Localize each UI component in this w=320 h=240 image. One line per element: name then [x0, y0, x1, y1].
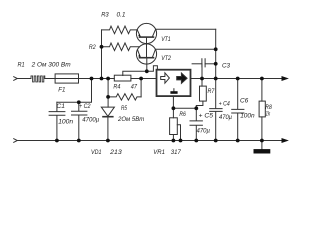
- transistor VT2: [136, 44, 156, 64]
- node dot base drive: [145, 69, 149, 73]
- node dot rail C6: [236, 139, 240, 143]
- node dot rail C1: [55, 139, 59, 143]
- svg-text:VD1: VD1: [91, 149, 102, 156]
- svg-text:4700µ: 4700µ: [82, 116, 99, 123]
- svg-text:R6: R6: [179, 111, 186, 118]
- capacitor C6: [232, 79, 244, 141]
- node dot main 91: [90, 77, 94, 81]
- capacitor C4: [210, 79, 222, 141]
- svg-text:470µ: 470µ: [197, 128, 211, 135]
- svg-text:VR1: VR1: [153, 149, 165, 156]
- svg-text:+ C4: + C4: [219, 101, 230, 108]
- op-amp U1 regulator box VR1: [157, 70, 191, 96]
- wire vertical to R2 R3: [101, 30, 103, 79]
- svg-text:R5: R5: [121, 105, 127, 112]
- wire VT1 base to VT2 base: [146, 37, 148, 57]
- wire R7 bottom jog: [196, 101, 203, 108]
- svg-text:R1: R1: [18, 62, 25, 69]
- resistor R8: [261, 79, 263, 102]
- svg-text:100n: 100n: [58, 119, 73, 126]
- svg-text:R7: R7: [208, 88, 215, 95]
- svg-text:+ C5: + C5: [199, 113, 214, 120]
- node dot rail C4: [214, 139, 218, 143]
- svg-text:317: 317: [171, 149, 181, 156]
- node dot rail C5: [194, 139, 198, 143]
- wire R4 to regulator box: [131, 78, 157, 80]
- node dot rail R8: [260, 139, 264, 143]
- svg-text:213: 213: [109, 149, 122, 156]
- node dot adj right: [194, 106, 198, 110]
- wire R5 right up to line: [140, 79, 142, 97]
- node dot R2 tap: [100, 45, 104, 49]
- capacitor C1: [49, 102, 65, 140]
- svg-text:100n: 100n: [240, 113, 255, 120]
- node dot main 237.2: [236, 77, 240, 81]
- resistor R3: [102, 26, 138, 34]
- svg-text:R3: R3: [101, 12, 109, 19]
- wire base drive from R4 tap: [123, 66, 158, 76]
- wire VT2 base down to node: [146, 58, 148, 71]
- svg-text:2Ом 5Вт: 2Ом 5Вт: [117, 116, 144, 123]
- wire right vertical rail x=215: [215, 29, 217, 78]
- resistor R5: [108, 94, 141, 100]
- node dot rail R6: [172, 139, 176, 143]
- ground: [261, 141, 263, 150]
- node dot main 201.5: [200, 77, 204, 81]
- svg-text:470µ: 470µ: [219, 114, 232, 121]
- diode VD1: [107, 97, 109, 107]
- node dot VT2 emitter rail: [214, 47, 218, 51]
- svg-text:C1: C1: [57, 103, 66, 110]
- wire R1 to F1 and through fuse to R4: [45, 78, 115, 80]
- svg-text:+ C2: + C2: [79, 103, 91, 110]
- node dot rail VD1: [106, 139, 110, 143]
- node IN- input chevron bottom: [14, 139, 18, 143]
- wire VT2 emitter to right rail: [155, 48, 215, 50]
- capacitor C5: [190, 108, 202, 140]
- node OUT+ arrow: [282, 76, 289, 81]
- wire regulator output to arrow: [191, 78, 282, 80]
- wire box bottom pin: [172, 96, 174, 108]
- resistor R2: [102, 43, 140, 51]
- node dot rail C2: [77, 139, 81, 143]
- svg-text:0.1: 0.1: [117, 12, 126, 19]
- svg-text:VT2: VT2: [161, 55, 171, 62]
- wire bottom rail: [17, 140, 282, 142]
- svg-text:R4: R4: [113, 83, 120, 90]
- fuse F1: [55, 74, 78, 83]
- node IN+ input chevron top: [14, 77, 18, 81]
- input arrow open: [161, 73, 170, 83]
- capacitor C2: [72, 102, 87, 140]
- svg-text:F1: F1: [58, 86, 65, 93]
- node dot main 261.4: [260, 77, 264, 81]
- node dot adj left: [172, 106, 176, 110]
- node OUT- arrow: [282, 138, 289, 143]
- wire input to R1: [17, 78, 30, 80]
- svg-text:VT1: VT1: [161, 36, 171, 43]
- output arrow filled: [177, 73, 187, 83]
- svg-text:1k: 1k: [266, 111, 271, 118]
- svg-text:2 Ом 300 Вт: 2 Ом 300 Вт: [31, 62, 71, 69]
- wire R6 tap: [177, 125, 180, 141]
- resistor R6: [172, 108, 174, 118]
- node dot main 101: [100, 77, 104, 81]
- common pin mark: [173, 89, 175, 91]
- wire C1C2 branch: [57, 79, 92, 103]
- resistor R4: [114, 75, 131, 81]
- svg-text:C3: C3: [222, 63, 230, 70]
- wire VT1 emitter to right rail: [156, 28, 216, 30]
- resistor R1 meander: [30, 76, 45, 82]
- node dot main 140.6: [139, 77, 143, 81]
- svg-text:47: 47: [131, 83, 137, 90]
- wire R5 branch left: [107, 79, 109, 97]
- node dot C3 right: [214, 62, 218, 66]
- svg-text:C6: C6: [240, 98, 248, 105]
- capacitor C3: [202, 59, 205, 67]
- node dot rail tap: [179, 139, 183, 143]
- svg-text:R2: R2: [89, 44, 96, 51]
- node dot C2 tap: [77, 100, 81, 104]
- node dot main 107.6: [106, 77, 110, 81]
- wire adj node horizontal: [173, 107, 196, 109]
- node dot main 215.2: [214, 77, 218, 81]
- transistor VT1: [136, 23, 156, 43]
- wire C3 left drop to output line and R7 feed: [201, 64, 203, 86]
- resistor R7: [200, 86, 207, 101]
- node dot R5 left: [106, 95, 110, 99]
